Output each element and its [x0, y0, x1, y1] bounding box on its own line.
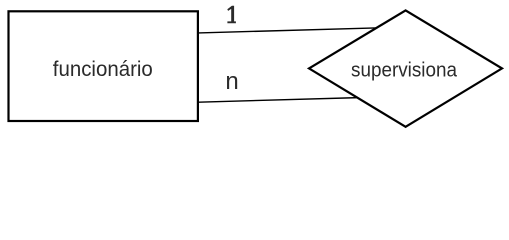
cardinality label 1: [227, 6, 236, 24]
relationship diamond: supervisiona: [309, 10, 502, 126]
entity rectangle: funcionário: [9, 11, 198, 121]
svg-text:funcionário: funcionário: [53, 57, 153, 81]
svg-text:supervisiona: supervisiona: [351, 58, 458, 81]
svg-text:n: n: [225, 68, 238, 95]
wire 1 (relationship line, cardinality 1): [190, 28, 380, 33]
wire n (relationship line, cardinality n): [190, 98, 363, 103]
